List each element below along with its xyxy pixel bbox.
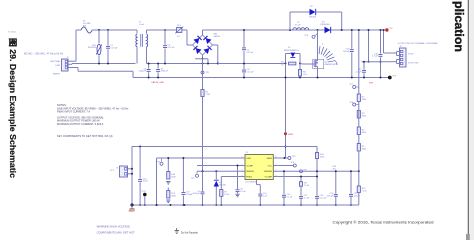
node R16 vsense (316, 170, 318, 172)
node L2-D3 (317, 29, 319, 31)
vcc rail drop to resistor (316, 147, 318, 153)
transistor Q1 (303, 59, 338, 69)
wire bridge top to rail (202, 30, 204, 35)
label LINE (55, 65, 60, 67)
svg-text:SLUSBQ5: SLUSBQ5 (8, 32, 16, 34)
isense wire (197, 170, 241, 172)
svg-text:560 pF: 560 pF (354, 196, 361, 198)
resistor R6 gate pulldown (298, 64, 307, 78)
svg-text:UCC28180D: UCC28180D (246, 182, 258, 184)
divider column top (358, 30, 360, 94)
node C5 mid (243, 63, 245, 65)
resistor R2 top (357, 94, 366, 102)
capacitor C15 (138, 147, 149, 206)
resistor R4b (357, 127, 366, 135)
node isense-sense column (202, 170, 204, 172)
node R16 vcomp (316, 176, 318, 178)
capacitor C20 column (349, 171, 361, 205)
svg-text:R5: R5 (281, 62, 283, 64)
node gate left (285, 63, 287, 65)
svg-text:图 29. Design Example Schematic: 图 29. Design Example Schematic (8, 38, 17, 179)
wire R4-R5 (358, 135, 360, 144)
tiny gray header smudge top-left (8, 32, 16, 34)
capacitor C9 (193, 171, 205, 205)
svg-text:1N4148: 1N4148 (219, 185, 226, 187)
test point TP8 (349, 102, 358, 106)
svg-text:ISENSE: ISENSE (246, 171, 254, 173)
svg-text:845k: 845k (362, 148, 366, 150)
test point TP4 black (388, 76, 397, 80)
wire earth pin (68, 68, 390, 78)
svg-text:MMSZ5248BT1G: MMSZ5248BT1G (284, 50, 299, 52)
bridge diode bottom-right (203, 46, 211, 54)
svg-text:97 µH: 97 µH (295, 25, 301, 27)
node C1 bottom (107, 63, 109, 65)
resistor R16 (315, 153, 324, 159)
bridge diode top-right (203, 36, 211, 44)
node varistor bottom (98, 63, 100, 65)
bridge diode top-left (193, 36, 201, 44)
svg-text:COMPONENTS MAY GET HOT: COMPONENTS MAY GET HOT (97, 230, 136, 234)
common-mode choke L1 (136, 22, 218, 64)
svg-text:1000 pF: 1000 pF (193, 193, 201, 195)
svg-text:TP11: TP11 (142, 191, 146, 193)
label VOUT (408, 54, 414, 56)
rc compensation column (299, 177, 310, 206)
wire bridge bottom to R1 (202, 59, 204, 90)
svg-text:5: 5 (276, 175, 277, 177)
svg-text:0.47 µF: 0.47 µF (168, 47, 176, 49)
node VO red (385, 28, 393, 31)
svg-text:VOUT: VOUT (408, 54, 414, 56)
node gnd col bus (156, 204, 158, 206)
svg-text:976k: 976k (206, 94, 210, 96)
svg-text:OUTPUT 390 VDC NOMINAL, 0.923: OUTPUT 390 VDC NOMINAL, 0.923 A MAX (398, 42, 439, 45)
node C3 top (148, 63, 150, 65)
svg-text:IPA60R190P6: IPA60R190P6 (325, 63, 338, 66)
node C2 top (164, 29, 166, 31)
svg-text:150 µF: 150 µF (343, 51, 350, 53)
node fuse-C1 (107, 29, 109, 31)
node plain rail (368, 29, 370, 31)
svg-text:TP6: TP6 (291, 162, 294, 164)
wire bridge bottom left stub (195, 59, 209, 65)
svg-text:S14K300: S14K300 (88, 47, 97, 49)
svg-text:PEAK INPUT CURRENT: 7 A: PEAK INPUT CURRENT: 7 A (57, 109, 90, 113)
svg-text:12 V: 12 V (110, 170, 115, 172)
svg-text:0.1 µF: 0.1 µF (287, 197, 293, 199)
svg-text:47 µF: 47 µF (143, 181, 149, 183)
label output rating (398, 42, 439, 45)
misc bus nodes (156, 204, 186, 206)
test point TP5 (288, 156, 296, 160)
capacitor C10 col (372, 30, 382, 78)
diode D4 clamp (214, 171, 226, 205)
plain col (368, 30, 370, 62)
diode D2 bypass (290, 6, 342, 30)
node C4 bottom (157, 77, 159, 79)
heatsink fan (319, 44, 337, 65)
capacitor C5 upper (242, 30, 254, 64)
label R18 dnp (333, 166, 337, 171)
svg-text:2: 2 (242, 164, 243, 166)
node C20 bus (350, 204, 352, 206)
wire source to bus (317, 69, 319, 78)
label EARTH (53, 72, 61, 75)
svg-text:TP9: TP9 (303, 169, 306, 171)
vcc rail (132, 146, 317, 148)
gate RC parallel D7 (281, 47, 300, 66)
wire R16 down (316, 159, 318, 196)
wire divider mid (358, 102, 360, 128)
node output drop rail (383, 29, 385, 31)
svg-text:845k: 845k (362, 132, 366, 134)
svg-text:VCC: VCC (268, 165, 273, 167)
node C5 bus (243, 77, 245, 79)
svg-text:MAXIMUM OUTPUT CURRENT: 0.923: MAXIMUM OUTPUT CURRENT: 0.923 A (57, 122, 104, 126)
gate line from bridge area (218, 63, 286, 65)
svg-text:560 pF: 560 pF (327, 196, 334, 198)
icomp cap C8 (235, 166, 246, 197)
node isense-diode (215, 170, 217, 172)
node D2 right (341, 29, 343, 31)
node C5 rail (243, 29, 245, 31)
node C19 rail (351, 29, 353, 31)
node C10b bus (335, 204, 337, 206)
svg-text:4.7 µF: 4.7 µF (372, 56, 378, 58)
op IC U1 UCC28180 highlighted (245, 152, 273, 184)
svg-text:RTN: RTN (369, 83, 374, 85)
node rc top (300, 176, 302, 178)
svg-text:D7: D7 (288, 47, 290, 49)
wire output top drop (384, 30, 392, 53)
svg-text:12.4k: 12.4k (304, 185, 309, 187)
node plain bus (368, 61, 370, 63)
svg-text:KEY COMPONENTS TO GET HOT: BR1: KEY COMPONENTS TO GET HOT: BR1, D3, Q1 (57, 134, 113, 138)
label RTN red (369, 83, 374, 85)
wire rail to RT1 (160, 29, 176, 31)
node C10b top (335, 170, 337, 172)
wire main rail (203, 29, 387, 31)
svg-text:Copyright © 2016, Texas Instru: Copyright © 2016, Texas Instruments Inco… (333, 219, 434, 224)
svg-text:FREQ: FREQ (246, 176, 252, 178)
Y-capacitor C4 (156, 64, 169, 78)
svg-text:GBU6J: GBU6J (214, 36, 220, 38)
svg-text:3: 3 (242, 170, 243, 172)
freq resistor R7 (220, 177, 241, 206)
resistor R15 dnp (166, 188, 177, 203)
svg-text:4: 4 (242, 175, 243, 177)
test point TP2 (191, 171, 198, 180)
wire gate to Q1 (300, 63, 314, 66)
svg-text:6: 6 (276, 170, 277, 172)
node vsense divider (358, 170, 360, 172)
svg-text:EARTH: EARTH (53, 72, 61, 75)
test point TP11 black (142, 191, 147, 206)
svg-text:0.47 µF: 0.47 µF (111, 48, 119, 50)
bridge diode bottom-left (193, 46, 201, 54)
do not populate note (175, 228, 199, 234)
svg-text:ICOMP: ICOMP (246, 165, 253, 167)
node fuse-varistor (98, 29, 100, 31)
wire R4 junction (358, 151, 360, 171)
svg-text:TP5: TP5 (292, 156, 295, 158)
svg-text:845k: 845k (362, 115, 366, 117)
capacitor C16 (315, 195, 327, 205)
svg-text:8: 8 (276, 156, 277, 158)
test point TP3 (304, 34, 317, 39)
wire top rail input (92, 29, 137, 31)
connector J2 (391, 46, 406, 67)
node C19 bus (351, 77, 353, 79)
resistor R1 (201, 90, 210, 97)
capacitor C11 col (356, 62, 366, 78)
gate pin wire (277, 157, 288, 159)
node C9 bus (202, 204, 204, 206)
thermistor RT1 (175, 25, 183, 38)
capacitor C10b column (327, 171, 338, 205)
svg-text:4.7 µF: 4.7 µF (356, 72, 362, 74)
node C10c rtnbus (380, 61, 382, 63)
node C11 top (363, 61, 365, 63)
node C2 bottom (164, 63, 166, 65)
svg-text:LINE: LINE (55, 65, 60, 67)
svg-text:32.4k: 32.4k (224, 194, 229, 196)
svg-text:θ: θ (322, 44, 323, 46)
output RTN bus (362, 61, 392, 63)
connector J3 (110, 166, 132, 177)
svg-text:C3D04060: C3D04060 (320, 24, 330, 26)
test point TP13 (156, 158, 163, 165)
node gate vertical at vcc rail (285, 146, 287, 148)
gnd pin wire (157, 158, 242, 205)
node C16 bus (316, 204, 318, 206)
svg-text:VSENSE: VSENSE (264, 171, 273, 173)
capacitor C13 (282, 171, 293, 205)
svg-text:EARTH_GND: EARTH_GND (152, 81, 165, 84)
resistor R3b (357, 111, 366, 119)
right caption: plication (rotated) (452, 1, 466, 52)
node R6 bus (299, 77, 301, 79)
svg-text:0.15 µF: 0.15 µF (320, 198, 328, 200)
vsense wire (277, 170, 359, 172)
warning text (97, 225, 136, 235)
label NEUTRAL (50, 60, 61, 63)
capacitor C19 (343, 30, 354, 78)
test point TP6 (291, 162, 297, 167)
node C20 top (350, 170, 352, 172)
test point TP1 (201, 63, 210, 75)
node divider rail (358, 29, 360, 31)
capacitor C1 (106, 30, 118, 64)
node source bus (317, 77, 319, 79)
svg-text:1N5406: 1N5406 (309, 17, 317, 19)
resistor R14 dnp (166, 157, 177, 184)
varistor RV1 (88, 30, 102, 64)
capacitor C17b (181, 157, 193, 206)
Y-capacitor C3 (139, 64, 151, 78)
bridge BR1 outline (193, 35, 213, 55)
svg-text:84.5: 84.5 (333, 168, 337, 170)
vcc pin wire (277, 165, 293, 167)
diode D3 (320, 22, 331, 34)
svg-text:1: 1 (242, 156, 243, 158)
svg-text:GATE: GATE (288, 133, 294, 136)
svg-text:plication: plication (452, 1, 466, 52)
notes text block (57, 103, 129, 138)
svg-text:NEUTRAL: NEUTRAL (50, 60, 61, 63)
wire line pin (68, 63, 136, 66)
left caption: figure 29 Design Example Schematic (rotated) (8, 38, 17, 179)
svg-text:845k: 845k (362, 99, 366, 101)
IC pins (241, 156, 277, 178)
node C15 bus (139, 204, 141, 206)
fuse F1 (81, 21, 92, 34)
node bridge bottom (202, 58, 204, 60)
node gate vertical at bus (285, 77, 287, 79)
resistor R5b (357, 144, 366, 152)
svg-text:2200 pF: 2200 pF (139, 71, 147, 73)
node C3 bottom (148, 77, 150, 79)
node rc bus (300, 204, 302, 206)
node C14 bus (259, 204, 261, 206)
inductor L2 (293, 22, 309, 30)
svg-text:4.7 µF: 4.7 µF (304, 198, 310, 200)
svg-text:GND: GND (246, 158, 251, 160)
svg-text:Do Not Populate: Do Not Populate (181, 231, 199, 234)
svg-text:5 mH: 5 mH (139, 24, 144, 26)
icomp wire (197, 165, 241, 167)
svg-text:TP13: TP13 (156, 162, 160, 164)
resistor R10 (357, 171, 367, 205)
node C10c rail (380, 29, 382, 31)
test point TP9 (300, 169, 307, 173)
svg-text:VCOMP: VCOMP (264, 176, 272, 178)
svg-text:249k: 249k (320, 157, 324, 159)
ground bus (132, 204, 359, 206)
node GATE red testpoint (284, 132, 294, 136)
node C4 top (157, 63, 159, 65)
node vcc cap C15 (139, 146, 141, 148)
svg-text:TP2: TP2 (191, 178, 194, 180)
chassis ground symbol (129, 205, 135, 212)
node gate right (299, 63, 301, 65)
wire bridge bottom (202, 55, 204, 59)
label input rating (24, 52, 64, 55)
test point TP7 (349, 84, 358, 89)
page right edge line (468, 0, 474, 240)
svg-text:0.47 µF: 0.47 µF (247, 52, 255, 54)
svg-text:85 VAC – 265 VAC, 47 Hz to 63: 85 VAC – 265 VAC, 47 Hz to 63 Hz (24, 52, 64, 55)
wire R1 down to ISENSE row (202, 97, 204, 172)
label earth net red (152, 81, 165, 84)
wire drain (317, 30, 319, 59)
node gate pin column (284, 157, 286, 159)
node bus left end (130, 203, 133, 206)
node C11 bus (363, 77, 365, 79)
capacitor C5 lower (242, 64, 254, 78)
svg-text:0.15 µF: 0.15 µF (247, 71, 255, 73)
connector J1 (62, 57, 70, 71)
node C13 top (283, 170, 285, 172)
node R7 bus (220, 204, 222, 206)
svg-text:0.1 µF: 0.1 µF (240, 191, 246, 193)
vcomp wire (277, 176, 317, 178)
svg-text:71.5k: 71.5k (362, 190, 367, 192)
gate drive vertical (285, 64, 287, 159)
vcc rail left drop (131, 147, 133, 206)
node icomp cap (237, 165, 239, 167)
node D2 left (289, 29, 291, 31)
label VOUT RTN (408, 63, 419, 65)
node D4 bus (215, 204, 217, 206)
svg-text:GATE: GATE (267, 157, 273, 160)
node j3 pins (131, 168, 133, 175)
capacitor C2 (163, 30, 175, 64)
node bridge right line (217, 63, 219, 65)
svg-text:WARNING HIGH VOLTAGE: WARNING HIGH VOLTAGE (97, 225, 131, 229)
wire RT1 to bridge (182, 30, 193, 45)
label BR1 (214, 34, 220, 39)
svg-text:2200 pF: 2200 pF (161, 71, 169, 73)
svg-text:7: 7 (276, 164, 277, 166)
svg-text:VO: VO (390, 28, 393, 30)
wire neutral to fuse (68, 30, 81, 61)
svg-text:VOUT RTN: VOUT RTN (408, 63, 419, 65)
node C13 bus (283, 204, 285, 206)
copyright (333, 219, 434, 224)
node C10c bus (380, 77, 382, 79)
page corner mark bottom-right (466, 234, 470, 240)
wire bridge right corner (213, 45, 218, 64)
svg-text:7.5: 7.5 (281, 64, 284, 66)
capacitor C14 (257, 180, 268, 206)
